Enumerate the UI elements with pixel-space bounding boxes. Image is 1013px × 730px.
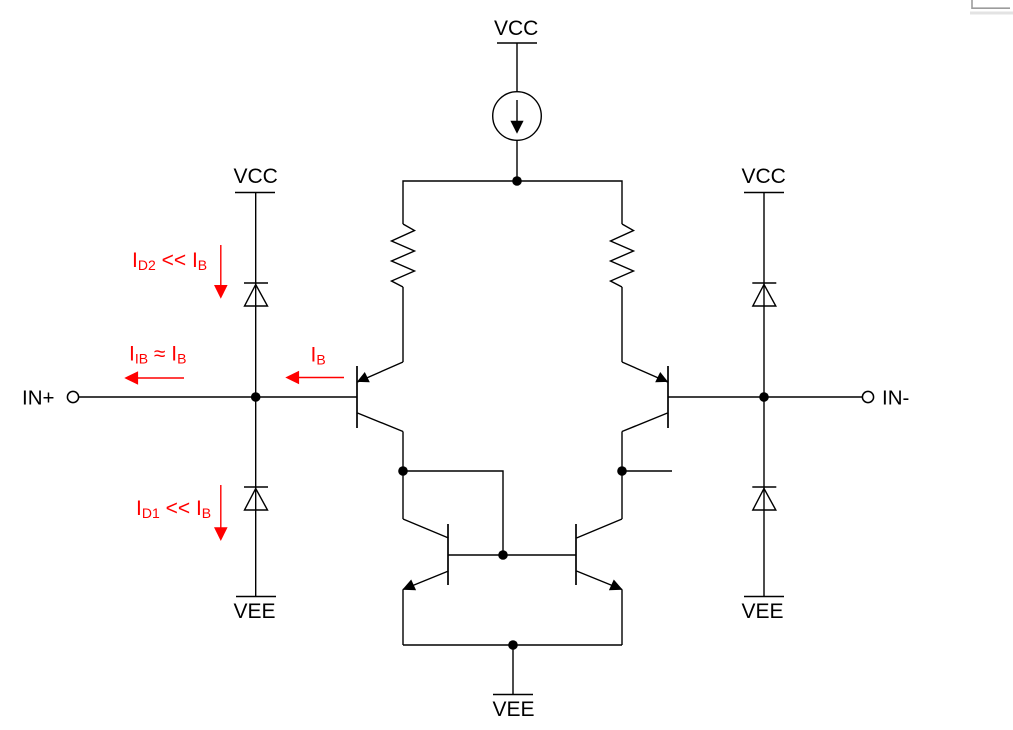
wire top rail bbox=[403, 181, 622, 224]
wire Q3/Q4 base line bbox=[448, 554, 576, 556]
svg-text:VCC: VCC bbox=[494, 17, 538, 40]
wire bottom rail bbox=[403, 644, 622, 646]
wire collector node to center bbox=[403, 471, 503, 555]
diode D2 (left upper clamp) bbox=[244, 283, 268, 306]
junction dot right input node bbox=[759, 392, 769, 402]
VEE power bar (right clamp) bbox=[744, 596, 784, 598]
wire IN+ to Q1 base bbox=[79, 396, 357, 398]
diode D1 (left lower clamp) bbox=[244, 487, 268, 510]
junction dot top node bbox=[512, 176, 522, 186]
wire left VCC to VEE through diodes bbox=[255, 193, 257, 597]
resistor R2 bbox=[611, 224, 634, 287]
annotation arrow IB (red, left) bbox=[285, 371, 344, 385]
terminal IN- open circle bbox=[862, 391, 873, 402]
page corner (grey frame fragment, top right) bbox=[970, 0, 1013, 13]
svg-text:VEE: VEE bbox=[234, 600, 276, 623]
wire current source to top node bbox=[516, 140, 518, 181]
wire R2 to Q2 emitter bbox=[621, 287, 623, 362]
svg-text:VEE: VEE bbox=[493, 698, 535, 721]
wire Q3 emitter down bbox=[402, 590, 404, 646]
junction dot right collector node bbox=[617, 466, 627, 476]
svg-text:ID1 << IB: ID1 << IB bbox=[136, 497, 211, 521]
svg-text:VCC: VCC bbox=[234, 165, 278, 188]
annotation arrow ID1 (red, down) bbox=[214, 485, 228, 541]
junction dot left input node bbox=[251, 392, 261, 402]
transistor Q2 (right PNP) bbox=[622, 362, 668, 432]
VCC power bar (right clamp) bbox=[744, 192, 784, 194]
VEE power bar (left clamp) bbox=[236, 596, 276, 598]
wire output stub bbox=[622, 470, 672, 472]
wire R1 to Q1 emitter bbox=[402, 287, 404, 362]
svg-text:IB: IB bbox=[311, 344, 326, 368]
diode D4 (right upper clamp) bbox=[752, 283, 776, 306]
wire left node down to Q3 bbox=[402, 471, 404, 519]
wire right node down to Q4 bbox=[621, 471, 623, 519]
wire Q2 collector down bbox=[621, 432, 623, 472]
svg-text:IIB ≈ IB: IIB ≈ IB bbox=[129, 343, 186, 367]
VCC power bar (left clamp) bbox=[235, 192, 275, 194]
wire right VCC to VEE through diodes bbox=[763, 193, 765, 597]
resistor R1 bbox=[392, 224, 415, 287]
current source I1 arrow bbox=[510, 100, 523, 134]
junction dot center base node bbox=[498, 550, 508, 560]
wire Q4 emitter down bbox=[621, 590, 623, 646]
junction dot bottom node bbox=[508, 640, 518, 650]
current source I1 circle bbox=[493, 92, 542, 141]
diode D3 (right lower clamp) bbox=[752, 487, 776, 510]
wire bottom node to VEE bbox=[512, 645, 514, 695]
terminal IN+ open circle bbox=[67, 391, 78, 402]
wire VCC bar to current source bbox=[516, 43, 518, 92]
VCC power bar (top center) bbox=[497, 42, 537, 44]
annotation arrow ID2 (red, down) bbox=[214, 245, 228, 299]
svg-text:ID2 << IB: ID2 << IB bbox=[132, 249, 207, 273]
wire Q1 collector down bbox=[402, 432, 404, 472]
svg-text:VEE: VEE bbox=[742, 600, 784, 623]
junction dot left collector node bbox=[398, 466, 408, 476]
svg-text:VCC: VCC bbox=[742, 165, 786, 188]
svg-text:IN-: IN- bbox=[882, 387, 909, 410]
svg-text:IN+: IN+ bbox=[22, 387, 54, 410]
wire Q2 base to IN- terminal bbox=[668, 396, 862, 398]
transistor Q4 (bottom right) bbox=[576, 519, 623, 590]
transistor Q1 (left PNP) bbox=[357, 362, 403, 432]
VEE power bar (bottom center) bbox=[493, 694, 533, 696]
transistor Q3 (bottom left) bbox=[402, 519, 448, 590]
annotation arrow IIB (red, left) bbox=[124, 371, 184, 385]
